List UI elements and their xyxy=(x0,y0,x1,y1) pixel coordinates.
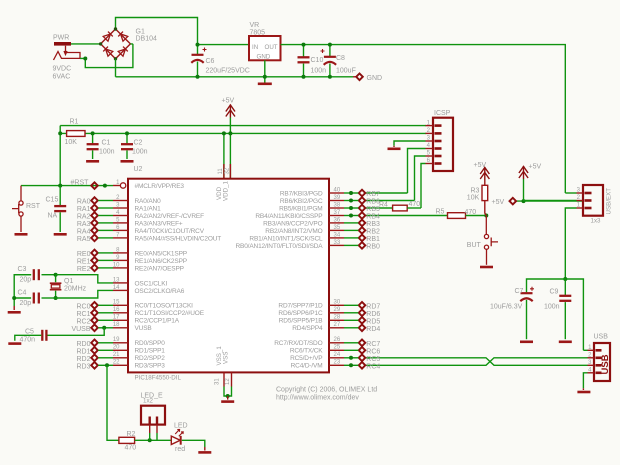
svg-text:RB7/KBI3/PGD: RB7/KBI3/PGD xyxy=(280,190,323,197)
svg-text:Copyright (C) 2006, OLIMEX Ltd: Copyright (C) 2006, OLIMEX Ltd xyxy=(276,387,377,394)
svg-text:20p: 20p xyxy=(20,277,32,284)
capacitor C7 (10uF/6.3V electrolytic) xyxy=(520,293,532,301)
pin 9 line xyxy=(113,259,128,261)
svg-text:1x2: 1x2 xyxy=(143,397,154,404)
svg-text:37: 37 xyxy=(334,210,341,216)
pin 2 line xyxy=(113,200,128,202)
junction 7805 GND on ground rail xyxy=(263,75,267,79)
svg-text:+5V: +5V xyxy=(222,98,235,105)
svg-text:16: 16 xyxy=(113,307,120,313)
junction #RST near pin 1 xyxy=(103,184,107,188)
svg-text:33: 33 xyxy=(334,240,341,246)
pin 15 line xyxy=(113,304,128,306)
wire RD3 down to R2 xyxy=(107,365,119,440)
svg-text:R2: R2 xyxy=(127,431,136,438)
svg-text:RC6/TX/CK: RC6/TX/CK xyxy=(290,348,323,355)
svg-text:11: 11 xyxy=(218,168,224,175)
wire pin 25 to RC6 flag xyxy=(344,349,358,351)
capacitor C6 (220uF/25VDC electrolytic) xyxy=(191,55,203,63)
connector USB pin 1 line xyxy=(588,349,595,351)
wire pin 39 to RB6 flag xyxy=(344,200,358,202)
crystal Q1 20MHz xyxy=(50,283,62,290)
net flag RA5 xyxy=(91,235,98,242)
pin 23 line xyxy=(329,364,344,366)
capacitor C15 (NA) xyxy=(54,206,66,211)
svg-text:35: 35 xyxy=(334,225,341,231)
svg-text:C6: C6 xyxy=(206,58,215,65)
svg-text:RB6: RB6 xyxy=(366,199,380,206)
wire RC5 D+ with crossover to USB pin 3 xyxy=(366,358,588,366)
svg-text:RC7: RC7 xyxy=(366,341,380,348)
ground symbol below C1 xyxy=(86,160,99,163)
svg-text:10uF/6.3V: 10uF/6.3V xyxy=(490,304,523,311)
wire RB5 to R4 xyxy=(366,207,393,209)
wire USB pin 1 stub xyxy=(583,349,587,351)
wire C15 top stub xyxy=(59,186,61,206)
net flag RD5 xyxy=(359,317,366,324)
wire R3 top stub xyxy=(484,180,486,185)
svg-text:RC7/RX/DT/SDO: RC7/RX/DT/SDO xyxy=(274,340,322,347)
connector USB/EXT body xyxy=(583,185,603,216)
wire R5 to BUT node xyxy=(466,215,487,217)
wire C8 bottom stub xyxy=(329,64,331,77)
connector USB/EXT pin 1 line xyxy=(577,207,584,209)
pin 18 line xyxy=(113,327,128,329)
pin 12 VSS line xyxy=(231,372,233,386)
connector ICSP pin 5 contact xyxy=(435,155,442,158)
connector USB/EXT pin 3 line xyxy=(577,192,584,194)
wire filter node down to C9 xyxy=(564,279,566,295)
svg-text:RE2/AN7/OESPP: RE2/AN7/OESPP xyxy=(135,265,184,272)
junction USB power filter node xyxy=(563,277,567,281)
svg-text:R1: R1 xyxy=(70,119,79,126)
svg-text:9VDC: 9VDC xyxy=(53,66,72,73)
resistor R5 470 body xyxy=(448,213,466,219)
svg-text:NA: NA xyxy=(48,213,58,220)
svg-text:470: 470 xyxy=(125,445,137,452)
connector USB/EXT pin 1 contact xyxy=(585,207,592,210)
svg-text:30: 30 xyxy=(334,300,341,306)
reset button RST contacts xyxy=(12,186,23,232)
wire unregulated rail C6 to 7805 IN xyxy=(198,44,250,46)
connector ICSP pin 3 contact xyxy=(435,140,442,143)
svg-text:470n: 470n xyxy=(20,337,36,344)
connector ICSP pin 3 line xyxy=(426,140,434,142)
wire VPP rail to ICSP pin 1 xyxy=(60,125,426,127)
junction VDD pin 32 on +5V rail xyxy=(228,131,232,135)
wire pin 38 to RB5 flag xyxy=(344,207,358,209)
svg-text:RE1/AN6/CK2SPP: RE1/AN6/CK2SPP xyxy=(135,258,187,265)
net flag +5V xyxy=(510,198,517,205)
svg-text:RD7/SPP7/P1D: RD7/SPP7/P1D xyxy=(278,303,323,310)
svg-text:7805: 7805 xyxy=(250,29,266,36)
wire OSC1 node to pin 13 xyxy=(56,275,113,283)
svg-text:RD1: RD1 xyxy=(76,348,90,355)
junction C8 bottom on ground rail xyxy=(328,75,332,79)
svg-text:RE0: RE0 xyxy=(77,251,91,258)
plus mark of C6 xyxy=(203,48,207,52)
wire C2 bottom stub xyxy=(126,150,128,159)
svg-text:32: 32 xyxy=(225,167,231,174)
svg-text:34: 34 xyxy=(334,232,341,238)
svg-text:27: 27 xyxy=(334,322,341,328)
wire USB/EXT pin 3 from +5V rail xyxy=(565,192,576,194)
pin 20 line xyxy=(113,349,128,351)
svg-text:6VAC: 6VAC xyxy=(53,74,71,81)
wire VUSB flag to pin xyxy=(98,327,113,329)
wire crystal bottom stub xyxy=(55,291,57,298)
svg-text:RA0/AN0: RA0/AN0 xyxy=(135,198,162,205)
net flag RE2 xyxy=(91,265,98,272)
junction R1 left terminal on vertical xyxy=(58,131,62,135)
svg-text:RB3: RB3 xyxy=(366,221,380,228)
wire USB/EXT pin 2 stub xyxy=(524,200,577,202)
svg-text:24: 24 xyxy=(334,352,341,358)
svg-text:31: 31 xyxy=(214,378,220,385)
connector USB pin 2 line xyxy=(588,357,595,359)
svg-text:C9: C9 xyxy=(550,289,559,296)
svg-text:RA2/AN2/VREF-/CVREF: RA2/AN2/VREF-/CVREF xyxy=(135,213,205,220)
svg-text:RD0: RD0 xyxy=(76,341,90,348)
svg-text:RA5: RA5 xyxy=(77,236,91,243)
svg-text:RC5: RC5 xyxy=(366,356,380,363)
wire C10 bottom stub xyxy=(303,64,305,77)
svg-text:+5V: +5V xyxy=(492,199,505,206)
bridge G1 diode bottom-left xyxy=(103,47,113,57)
svg-text:100n: 100n xyxy=(99,149,115,156)
pin 7 line xyxy=(113,237,128,239)
svg-text:PWR: PWR xyxy=(53,35,69,42)
junction RC4 pin end xyxy=(349,363,353,367)
svg-text:RA3: RA3 xyxy=(77,221,91,228)
pin 31 VSS_1 line xyxy=(223,372,225,386)
wire RC0 flag to pin xyxy=(98,304,113,306)
pin 11 red portion xyxy=(223,164,225,179)
bridge rectifier G1 diamond outline xyxy=(101,29,131,59)
net flag RB4 xyxy=(359,212,366,219)
wire bridge DC- down to ground rail xyxy=(115,59,117,77)
connector ICSP pin 1 line xyxy=(426,125,434,127)
svg-text:C8: C8 xyxy=(336,55,345,62)
capacitor C9 (100n) xyxy=(559,296,571,301)
wire pin 27 to RD4 flag xyxy=(344,327,358,329)
net flag RD6 xyxy=(359,310,366,317)
wire RE2 flag to pin xyxy=(98,267,113,269)
pin 5 line xyxy=(113,222,128,224)
svg-text:10K: 10K xyxy=(65,139,78,146)
junction C10 bottom on ground rail xyxy=(302,75,306,79)
+5V supply arrow near USB/EXT xyxy=(519,166,528,179)
svg-text:RB2/AN8/INT2/VMO: RB2/AN8/INT2/VMO xyxy=(265,228,322,235)
resistor R3 10K body xyxy=(482,185,488,200)
wire C10 top stub xyxy=(303,45,305,57)
svg-text:PIC18F4550-DIL: PIC18F4550-DIL xyxy=(135,375,182,382)
net flag RD3 xyxy=(91,362,98,369)
pin 3 line xyxy=(113,207,128,209)
pin 21 line xyxy=(113,357,128,359)
net flag RA2 xyxy=(91,212,98,219)
junction C1 on +5V rail xyxy=(91,131,95,135)
wire C3 to OSC1 node xyxy=(42,274,56,276)
wire ICSP pin 6 to R4 xyxy=(421,164,426,209)
wire RA4 flag to pin xyxy=(98,229,113,231)
svg-text:C2: C2 xyxy=(134,140,143,147)
wire OSC2 node to pin 14 xyxy=(56,290,113,298)
wire #RST node horizontal xyxy=(21,185,113,187)
net flag RD1 xyxy=(91,347,98,354)
svg-text:25: 25 xyxy=(334,345,341,351)
pin 32 red portion xyxy=(229,164,231,179)
ground symbol below C15 xyxy=(54,233,67,236)
svg-text:RC1/T1OSI/CCP2/#UOE: RC1/T1OSI/CCP2/#UOE xyxy=(135,310,205,317)
svg-text:RD5: RD5 xyxy=(366,318,380,325)
svg-text:RST: RST xyxy=(26,203,41,210)
connector ICSP pin 6 contact xyxy=(435,162,442,165)
svg-text:USB: USB xyxy=(594,334,609,341)
junction RB5 pin end xyxy=(349,206,353,210)
svg-text:RD1/SPP1: RD1/SPP1 xyxy=(135,348,166,355)
connector ICSP pin 1 contact xyxy=(435,124,442,127)
svg-text:VDD_1: VDD_1 xyxy=(222,180,229,201)
junction OSC2 node at crystal xyxy=(54,296,58,300)
pin 40 line xyxy=(329,192,344,194)
svg-text:RA5/AN4/#SS/HLVDIN/C2OUT: RA5/AN4/#SS/HLVDIN/C2OUT xyxy=(135,235,222,242)
wire C4 to OSC2 node xyxy=(42,297,56,299)
svg-text:100n: 100n xyxy=(544,304,560,311)
power jack PWR sleeve contact xyxy=(54,46,81,60)
ground symbol below RST button xyxy=(15,233,28,236)
pin 1 bubble xyxy=(120,183,125,188)
svg-text:RC0/T1OSO/T13CKI: RC0/T1OSO/T13CKI xyxy=(135,303,194,310)
svg-text:GND: GND xyxy=(257,54,271,61)
junction at jack sleeve node xyxy=(83,57,87,61)
svg-text:RC5/D+/VP: RC5/D+/VP xyxy=(290,355,322,362)
connector ICSP pin 2 line xyxy=(426,132,434,134)
wire pin 40 to RB7 flag xyxy=(344,192,358,194)
svg-text:C1: C1 xyxy=(102,140,111,147)
pin 36 line xyxy=(329,222,344,224)
svg-text:220uF/25VDC: 220uF/25VDC xyxy=(206,68,250,75)
wire RE1 flag to pin xyxy=(98,259,113,261)
svg-text:RD2/SPP2: RD2/SPP2 xyxy=(135,355,166,362)
wire bridge AC2 to jack sleeve xyxy=(80,44,133,68)
node bridge left vertex xyxy=(99,42,102,45)
svg-text:RA0: RA0 xyxy=(77,199,91,206)
pin 34 line xyxy=(329,237,344,239)
wire pin 36 to RB3 flag xyxy=(344,222,358,224)
junction OSC1 node at crystal xyxy=(54,273,58,277)
svg-text:RB4: RB4 xyxy=(366,214,380,221)
connector USB pin 2 contact xyxy=(596,356,602,359)
connector ICSP pin 5 line xyxy=(426,155,434,157)
junction C10 top on +5V rail xyxy=(302,43,306,47)
svg-text:Q1: Q1 xyxy=(64,278,73,285)
svg-text:10: 10 xyxy=(113,262,120,268)
svg-text:18: 18 xyxy=(113,322,120,328)
svg-text:17: 17 xyxy=(113,315,120,321)
svg-text:20: 20 xyxy=(113,345,120,351)
LED diode symbol xyxy=(171,430,183,445)
svg-text:20p: 20p xyxy=(20,300,32,307)
connector ICSP pin 4 contact xyxy=(435,147,442,150)
svg-text:RB0: RB0 xyxy=(366,243,380,250)
svg-text:RC4/D-/VM: RC4/D-/VM xyxy=(291,363,323,370)
wire crystal top stub xyxy=(55,275,57,283)
capacitor C4 (20p) xyxy=(34,293,39,304)
wire filter node to USB pin 1 xyxy=(565,279,583,350)
pin 37 line xyxy=(329,215,344,217)
wire C6 bottom stub xyxy=(197,62,199,77)
svg-text:13: 13 xyxy=(113,277,120,283)
junction C8 top on +5V rail xyxy=(328,43,332,47)
capacitor C2 (100n) xyxy=(121,144,133,149)
connector USB body xyxy=(594,343,610,381)
wire RC1 flag to pin xyxy=(98,312,113,314)
ground stub ICSP xyxy=(393,146,395,147)
svg-text:RB1: RB1 xyxy=(366,236,380,243)
svg-text:RD3/SPP3: RD3/SPP3 xyxy=(135,363,166,370)
svg-text:VSS: VSS xyxy=(222,352,229,364)
junction BUT node xyxy=(484,214,488,218)
ground symbol below VSS pins xyxy=(221,400,234,403)
svg-text:RB2: RB2 xyxy=(366,228,380,235)
ground stub crystal xyxy=(13,306,15,310)
pin 19 line xyxy=(113,342,128,344)
resistor R2 470 body xyxy=(119,437,135,443)
pin 25 line xyxy=(329,349,344,351)
svg-text:RB6/KBI2/PGC: RB6/KBI2/PGC xyxy=(280,198,323,205)
pin 22 line xyxy=(113,364,128,366)
svg-text:100n: 100n xyxy=(132,149,148,156)
wire RA5 flag to pin xyxy=(98,237,113,239)
svg-text:RC6: RC6 xyxy=(366,348,380,355)
wire filter node to C7 xyxy=(527,279,566,292)
net flag RC0 xyxy=(91,302,98,309)
wire +5V rail to ICSP pin 2 xyxy=(60,132,426,134)
net flag RD4 xyxy=(359,325,366,332)
junction C6 top on rail xyxy=(196,43,200,47)
svg-text:26: 26 xyxy=(334,337,341,343)
svg-text:OUT: OUT xyxy=(265,44,278,51)
ground symbol below C2 xyxy=(121,160,134,163)
svg-text:38: 38 xyxy=(334,202,341,208)
ground symbol below C7 xyxy=(520,340,533,343)
svg-text:LED: LED xyxy=(174,423,188,430)
wire RB7 to ICSP pin 4 vertical xyxy=(366,192,408,194)
wire RA3 flag to pin xyxy=(98,222,113,224)
wire pin 24 to RC5 flag xyxy=(344,357,358,359)
svg-text:100n: 100n xyxy=(311,68,327,75)
svg-text:USB/EXT: USB/EXT xyxy=(605,188,612,215)
svg-text:RE1: RE1 xyxy=(77,258,91,265)
pin 1 line with inverting bubble xyxy=(113,185,120,187)
connector LED_E body xyxy=(141,406,165,425)
net flag RA1 xyxy=(91,205,98,212)
wire RD2 flag to pin xyxy=(98,357,113,359)
connector USB pin 3 contact xyxy=(596,364,602,367)
svg-text:BUT: BUT xyxy=(467,242,482,249)
svg-text:+5V: +5V xyxy=(529,163,542,170)
svg-text:VUSB: VUSB xyxy=(71,326,90,333)
net flag RB2 xyxy=(359,227,366,234)
wire pin 34 to RB1 flag xyxy=(344,237,358,239)
wire VDD_1 pin 32 vertical xyxy=(229,133,231,178)
junction LED_E pin 1 on wire xyxy=(148,438,152,442)
net flag RA0 xyxy=(91,197,98,204)
svg-text:40: 40 xyxy=(334,187,341,193)
net flag RC2 xyxy=(91,317,98,324)
pin 30 line xyxy=(329,304,344,306)
svg-text:470: 470 xyxy=(409,201,421,208)
net flag RC7 xyxy=(359,340,366,347)
svg-text:VR: VR xyxy=(250,22,260,29)
wire ground rail of power section xyxy=(116,76,354,78)
net flag RB5 xyxy=(359,205,366,212)
svg-text:DB104: DB104 xyxy=(136,36,158,43)
net flag RC6 xyxy=(359,347,366,354)
wire RA1 flag to pin xyxy=(98,207,113,209)
bridge G1 diode top-left xyxy=(103,32,113,42)
svg-text:RA1: RA1 xyxy=(77,206,91,213)
capacitor C10 (100n) xyxy=(298,57,310,62)
wire OSC1 net left segment xyxy=(14,274,31,276)
pin 10 line xyxy=(113,267,128,269)
svg-text:RC2/CCP1/P1A: RC2/CCP1/P1A xyxy=(135,318,180,325)
wire pin 37 to RB4 flag xyxy=(344,215,358,217)
svg-text:RE0/AN5/CK1SPP: RE0/AN5/CK1SPP xyxy=(135,250,187,257)
svg-text:RA2: RA2 xyxy=(77,214,91,221)
junction RB7 pin end xyxy=(349,191,353,195)
connector USB/EXT pin 3 contact xyxy=(585,192,592,195)
ground symbol below BUT xyxy=(480,266,493,269)
svg-text:RC0: RC0 xyxy=(76,303,90,310)
net flag GND at end of ground rail xyxy=(356,74,363,81)
svg-text:OSC2/CLKO/RA6: OSC2/CLKO/RA6 xyxy=(135,288,185,295)
pin 8 line xyxy=(113,252,128,254)
wire RD1 flag to pin xyxy=(98,349,113,351)
wire ICSP pin 4 to RB7 xyxy=(408,149,426,194)
svg-text:C3: C3 xyxy=(18,266,27,273)
net flag RB3 xyxy=(359,220,366,227)
wire USB pin 4 to ground xyxy=(583,373,587,389)
push button BUT contacts xyxy=(484,216,498,265)
svg-text:RA4/T0CKI/C1OUT/RCV: RA4/T0CKI/C1OUT/RCV xyxy=(135,228,205,235)
pin 14 line xyxy=(113,289,128,291)
microcontroller U2 PIC18F4550 body xyxy=(128,179,329,373)
wire LED_E pin1 to row xyxy=(149,433,151,440)
wire LED_E pin 1 down xyxy=(149,425,151,434)
wire C7 to ground xyxy=(526,300,528,339)
connector USB/EXT pin 2 line xyxy=(577,200,584,202)
wire pin 33 to RB0 flag xyxy=(344,244,358,246)
wire ICSP pin 3 to ground xyxy=(394,141,426,146)
junction RB4 pin end xyxy=(349,214,353,218)
svg-text:RB4/AN11/KBI0/CSSPP: RB4/AN11/KBI0/CSSPP xyxy=(255,213,322,220)
wire VUSB to C5 xyxy=(47,328,104,336)
wire 7805 GND pin down xyxy=(264,60,266,82)
svg-text:RC4: RC4 xyxy=(366,363,380,370)
wire LED cathode to ground xyxy=(182,440,205,447)
voltage regulator VR 7805 body xyxy=(249,36,281,60)
pin 38 line xyxy=(329,207,344,209)
net flag RB7 xyxy=(359,190,366,197)
net flag RE1 xyxy=(91,257,98,264)
net flag RD2 xyxy=(91,355,98,362)
wire C9 to ground xyxy=(564,302,566,339)
wire C1 top stub xyxy=(92,133,94,143)
pin 35 line xyxy=(329,229,344,231)
node bridge bottom vertex xyxy=(114,57,117,60)
